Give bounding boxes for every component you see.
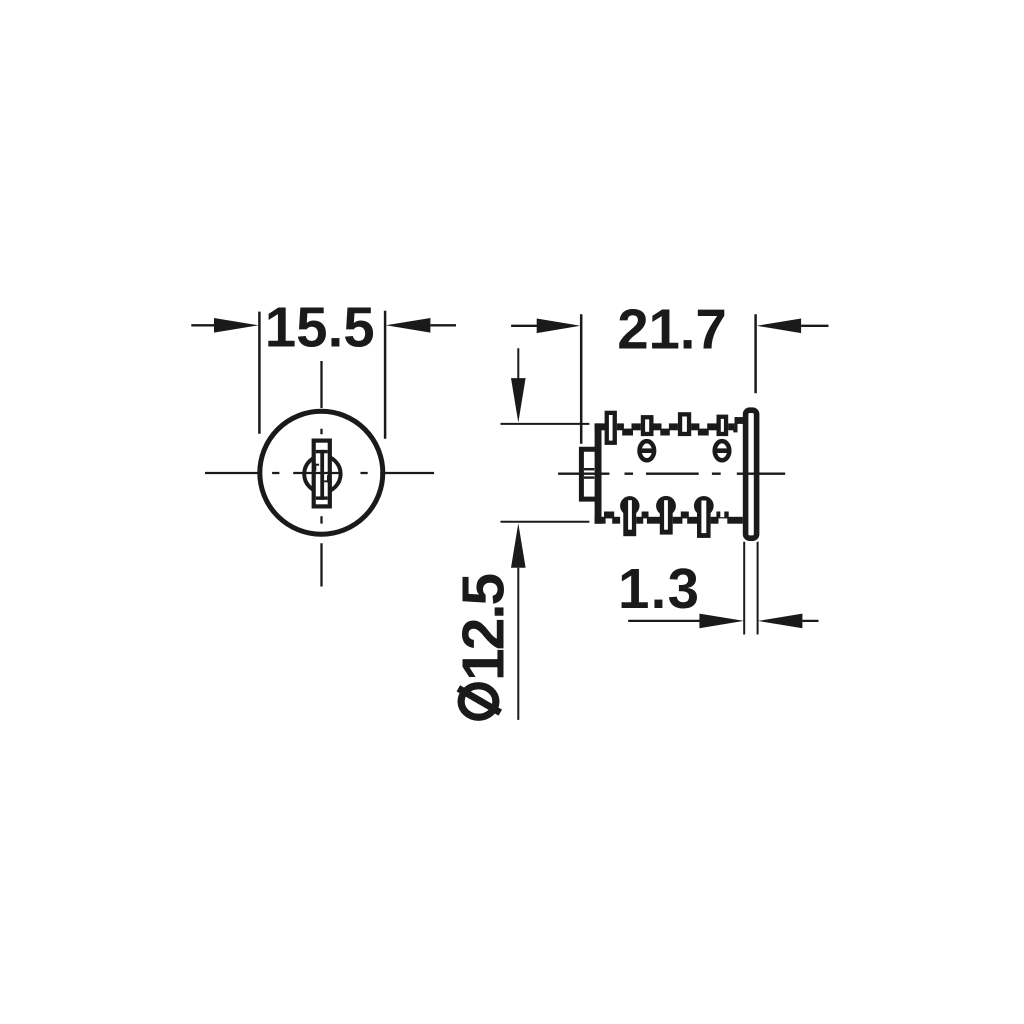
svg-text:12.5: 12.5 [451, 574, 517, 681]
svg-text:21.7: 21.7 [617, 297, 727, 360]
svg-text:1.3: 1.3 [618, 557, 699, 620]
svg-text:15.5: 15.5 [265, 295, 375, 358]
